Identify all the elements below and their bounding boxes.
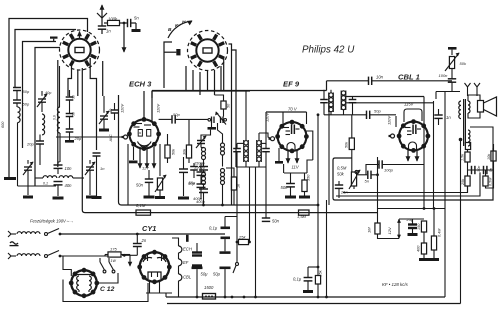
svg-text:K: K [175, 23, 179, 29]
svg-text:150: 150 [417, 223, 421, 230]
trimmer [86, 166, 94, 168]
svg-text:5n: 5n [489, 168, 493, 172]
svg-text:50n: 50n [136, 183, 144, 188]
svg-text:0,5M: 0,5M [337, 166, 347, 171]
svg-text:110V: 110V [156, 104, 161, 113]
anode wire ECH3 [143, 91, 145, 119]
long vertical x460 [460, 140, 462, 304]
volume potentiometer [157, 178, 162, 190]
wire anode line y90 [152, 90, 327, 92]
resistor 0,4M [431, 236, 436, 250]
long vertical x255 [255, 167, 257, 297]
svg-text:110V: 110V [265, 113, 270, 122]
chassis box bottom [119, 95, 319, 205]
long vertical x445 [444, 92, 446, 298]
ground [23, 196, 33, 199]
svg-text:Philips 42 U: Philips 42 U [302, 45, 355, 56]
svg-text:110V: 110V [387, 116, 392, 125]
svg-text:50p: 50p [173, 112, 180, 117]
resistor 0,5M [483, 176, 488, 186]
wire pin V1 [77, 70, 79, 97]
bus bottom a [166, 296, 445, 298]
cathode bar V2 [176, 49, 180, 55]
svg-text:1M: 1M [138, 131, 142, 135]
ground [299, 196, 310, 199]
resistor 1,5k [465, 152, 470, 162]
wire [486, 170, 494, 188]
capacitor 40p [111, 109, 119, 111]
heater pins Y [465, 83, 471, 87]
svg-text:B: B [168, 27, 172, 33]
wire pin V2 [207, 71, 209, 91]
box 115V [404, 109, 422, 121]
resistor 25k [465, 176, 470, 186]
hum coil [468, 130, 470, 146]
wire [436, 91, 460, 93]
vertical from ECH3 pins [135, 168, 137, 206]
grid cap EF9 [271, 137, 275, 141]
svg-text:AVC: AVC [109, 134, 113, 143]
svg-text:ECH 3: ECH 3 [129, 80, 152, 89]
svg-text:30n: 30n [477, 166, 481, 172]
tube CBL1 [399, 122, 428, 151]
svg-text:50k: 50k [337, 172, 345, 177]
wire pin V2 [185, 66, 187, 91]
pins CBL1 [407, 150, 409, 162]
wire [122, 254, 137, 256]
svg-text:0,4M: 0,4M [438, 228, 442, 237]
capacitor 1n CBL [434, 114, 442, 116]
long vertical x434 [433, 101, 435, 209]
tube C12 (ballast) [71, 270, 97, 296]
AVC wire to grid [56, 136, 122, 138]
anode bar [186, 235, 189, 242]
wire pin V2 [229, 44, 232, 205]
svg-text:1W: 1W [111, 259, 117, 263]
wire [249, 167, 251, 242]
svg-text:30: 30 [72, 95, 76, 99]
wire pin V1 [68, 66, 72, 96]
svg-text:50μ: 50μ [201, 272, 209, 277]
wire cathode row [284, 172, 307, 174]
svg-text:40p: 40p [45, 91, 51, 95]
capacitor 50n AVC [262, 217, 270, 219]
tube EF9 [278, 122, 307, 151]
junction dot [459, 138, 463, 142]
svg-text:11V: 11V [292, 165, 300, 170]
cathode ground bar EF9 [275, 161, 283, 164]
trimmer [38, 98, 46, 100]
tube ECH3 [129, 119, 158, 148]
svg-text:5n: 5n [365, 179, 370, 184]
capacitor IFT1 a [233, 148, 241, 150]
ground [303, 290, 313, 293]
wire [102, 22, 108, 24]
wire pin V2 [214, 70, 216, 95]
svg-text:25k: 25k [461, 178, 465, 186]
svg-text:ECH: ECH [183, 247, 193, 252]
wire [17, 123, 19, 186]
resistor 50k [165, 145, 170, 158]
svg-text:0,1M: 0,1M [136, 203, 146, 208]
svg-text:1n: 1n [100, 166, 105, 171]
bus wire y212 [82, 68, 378, 213]
resistor 10k [491, 151, 496, 161]
resistor 1,5M [299, 210, 310, 215]
ground [135, 23, 137, 29]
wire [59, 133, 61, 162]
switch [236, 242, 238, 263]
wire pin V2 [223, 57, 225, 91]
wires speaker [468, 96, 477, 101]
resistor 150 [421, 221, 426, 232]
svg-text:2n: 2n [141, 238, 147, 243]
svg-text:1n: 1n [106, 29, 111, 34]
svg-text:100n: 100n [439, 73, 449, 78]
svg-text:1,5M: 1,5M [297, 214, 307, 219]
svg-text:20p: 20p [26, 142, 34, 147]
svg-text:CBL 1: CBL 1 [398, 73, 420, 82]
resistor 350 [302, 180, 307, 192]
wire IFT1 down [236, 167, 238, 217]
wire mains box 2 [63, 280, 148, 302]
svg-text:0,5M: 0,5M [489, 177, 493, 186]
svg-text:50n: 50n [272, 219, 280, 224]
capacitor 25n [335, 184, 343, 186]
svg-text:1n: 1n [446, 115, 451, 120]
tube V1 (converter, dashed envelope) [60, 30, 100, 70]
wire [35, 48, 60, 187]
oscillator coil 2a [221, 143, 225, 147]
capacitor 10n [368, 77, 370, 85]
tube CY1 [140, 252, 170, 282]
oscillator coil 1b [202, 173, 206, 177]
wire riser 10n [326, 81, 328, 91]
svg-text:0,1μ: 0,1μ [209, 226, 218, 231]
capacitor IFT2 b [349, 99, 357, 101]
antenna [101, 5, 103, 18]
capacitor 50u a [192, 251, 202, 253]
IF transformer 2 primary [328, 93, 330, 113]
ground osc [208, 127, 217, 130]
wire to AVC [123, 22, 126, 25]
ground [419, 258, 429, 261]
wire 110V branch [265, 112, 267, 145]
resistor 100k [108, 20, 120, 25]
ground [92, 196, 102, 199]
resistor 30k [186, 145, 191, 158]
output transformer primary [459, 101, 461, 119]
coil L3 [42, 114, 45, 135]
capacitor 2n [136, 233, 139, 236]
svg-text:50k: 50k [460, 61, 467, 66]
bus bottom b [167, 303, 461, 305]
capacitor 50p det [366, 111, 368, 119]
wire screen right [306, 131, 313, 160]
output transformer secondary [468, 101, 470, 113]
IF transformer 1 secondary [256, 140, 258, 162]
capacitor 20p [36, 140, 44, 142]
feedback loop wire [468, 126, 494, 148]
wire screen line [152, 90, 250, 92]
wire IFT2 secondary right [346, 96, 424, 98]
wire CBL1 top [413, 109, 415, 122]
svg-text:100k: 100k [108, 17, 118, 22]
mains lead 1 [8, 231, 11, 237]
long vertical x318 [317, 115, 319, 276]
svg-text:FeszüItségek 190V∼→: FeszüItségek 190V∼→ [30, 219, 74, 224]
svg-text:40n: 40n [65, 183, 73, 188]
capacitor 30p [66, 96, 74, 98]
wire osc center [218, 123, 223, 143]
wire pin V2 [232, 50, 236, 167]
resistor 50k det [349, 138, 354, 150]
wire [9, 19, 88, 179]
svg-text:EF 9: EF 9 [283, 80, 300, 89]
trimmer padding [100, 115, 108, 117]
ground [53, 197, 64, 200]
wire detector y209 [378, 208, 445, 210]
svg-text:115V: 115V [404, 102, 415, 107]
svg-text:0,1: 0,1 [43, 182, 48, 186]
svg-text:50p: 50p [23, 89, 30, 94]
speaker [478, 101, 484, 113]
wires IFT1 [245, 91, 247, 141]
coil L1 [18, 107, 21, 123]
wire pin V1 [102, 61, 104, 96]
voltage selector contacts [100, 262, 105, 270]
ground [429, 258, 439, 261]
trimmer [24, 166, 32, 168]
wire feedback 1 [343, 186, 468, 193]
svg-text:175: 175 [110, 247, 117, 252]
capacitor 10n [54, 164, 63, 166]
wires IFT2 [330, 90, 332, 93]
wire [353, 186, 355, 189]
coil L4 [57, 107, 60, 133]
wire feedback 2 [336, 172, 480, 196]
grid cap CBL1 [391, 134, 395, 138]
wire [164, 42, 172, 88]
cathode ground bar ECH3 [129, 161, 138, 164]
wire [8, 19, 10, 178]
capacitor 5n [127, 19, 129, 27]
wire top corner [225, 217, 237, 243]
capacitor 20p [66, 128, 74, 130]
wire [58, 161, 60, 163]
capacitor 1n [98, 25, 106, 27]
tone box [333, 148, 493, 200]
capacitor IFT2 a [320, 99, 328, 101]
capacitor 5n tone [358, 174, 367, 176]
svg-text:0,6: 0,6 [53, 115, 57, 120]
capacitor 50p [13, 87, 21, 89]
pin wires EF9 [278, 148, 280, 161]
grid cap ECH3 [124, 135, 128, 139]
C12 filament coils [76, 274, 92, 276]
capacitor [179, 168, 188, 170]
svg-text:H: H [182, 20, 186, 26]
capacitor bypass [50, 37, 58, 39]
pin wires ECH3 [139, 148, 141, 168]
mains lead 2 [8, 253, 11, 259]
wire 50p line to trimmer [175, 118, 208, 120]
wire [222, 155, 224, 167]
oscillator coil 1a [202, 148, 206, 152]
wire pin V2 [220, 66, 222, 91]
svg-text:1500p: 1500p [194, 165, 206, 170]
ground [285, 196, 296, 199]
potentiometer 50k [449, 57, 454, 69]
band switch arc B K H [168, 21, 192, 38]
ground mid [65, 140, 74, 143]
svg-text:70 V: 70 V [288, 107, 298, 112]
wire IFT1 to EF9 grid [259, 133, 271, 138]
svg-text:C 12: C 12 [100, 286, 115, 293]
svg-text:100p: 100p [384, 168, 394, 173]
long vertical x424 [423, 97, 425, 209]
differential trimmer osc [211, 117, 213, 124]
svg-text:350: 350 [307, 174, 311, 181]
svg-text:50n: 50n [281, 185, 289, 190]
output transformer core [463, 99, 465, 146]
svg-text:CBL: CBL [183, 275, 192, 280]
svg-text:0,1μ: 0,1μ [293, 277, 302, 282]
resistor 25k [239, 239, 249, 244]
resistor small [465, 143, 470, 150]
IF transformer 2 secondary [340, 91, 342, 111]
oscillator coil 2b [221, 169, 225, 173]
wire mains box [63, 256, 71, 276]
long vertical x326 [326, 200, 328, 297]
resistor 25k AF [315, 276, 320, 285]
ground [178, 197, 189, 200]
svg-text:50p: 50p [23, 102, 30, 107]
wire pin V1 [90, 58, 96, 150]
resistor 400 [421, 243, 426, 254]
capacitor 50n cathode [286, 183, 295, 185]
wire [460, 118, 463, 120]
capacitor 50p stack [66, 113, 74, 115]
svg-text:CY1: CY1 [142, 224, 156, 233]
wire EF9 top box [266, 111, 307, 113]
wire pin V2 [199, 72, 201, 95]
ground [99, 129, 109, 132]
wire pin V2 [192, 70, 194, 91]
ground [4, 177, 16, 180]
heater chain [178, 243, 180, 246]
ground [144, 196, 155, 199]
svg-text:10n: 10n [376, 75, 384, 80]
svg-text:25k: 25k [238, 235, 246, 240]
wire C12 right [97, 273, 118, 283]
svg-text:1500: 1500 [204, 285, 214, 290]
svg-text:KF • 128 kc/s: KF • 128 kc/s [382, 282, 409, 287]
IF transformer 1 primary [243, 140, 245, 162]
ground [86, 196, 96, 199]
arrow tuning V1 [79, 32, 81, 40]
wire [308, 266, 318, 268]
svg-text:50: 50 [72, 112, 76, 116]
capacitor bar top [448, 47, 457, 50]
wire [15, 30, 76, 88]
ground [408, 233, 418, 236]
coil wave trap [43, 176, 57, 178]
svg-text:50p: 50p [188, 181, 195, 186]
wire pin V1 [57, 60, 59, 167]
wire grid line [395, 116, 397, 127]
wire [23, 42, 57, 149]
svg-text:1,5k: 1,5k [461, 153, 465, 161]
CY1 cathode [148, 272, 161, 279]
chassis box right edge [328, 106, 330, 205]
capacitor 30n [471, 166, 473, 174]
oscillator trimmer [197, 140, 205, 142]
wire y188 [342, 189, 344, 193]
capacitor 50u b [220, 251, 231, 254]
tube V2 (oscillator, dashed envelope) [188, 31, 228, 71]
box chassis line [118, 198, 120, 200]
svg-text:50p: 50p [374, 109, 381, 114]
wire [18, 185, 57, 187]
resistor 50 osc [221, 101, 226, 109]
wire [399, 218, 424, 220]
capacitor 50p [13, 99, 21, 101]
svg-text:10n: 10n [65, 166, 73, 171]
svg-text:1M: 1M [367, 227, 372, 233]
wire det bottom [324, 114, 367, 116]
capacitor 40n [54, 181, 63, 183]
svg-text:600: 600 [1, 121, 5, 128]
mains AC symbol [10, 242, 18, 244]
svg-text:50μ: 50μ [213, 272, 221, 277]
capacitor 100p [381, 164, 398, 166]
capacitor 50p to osc [159, 133, 172, 135]
wire ladder mid [467, 162, 469, 176]
wire box left [118, 94, 120, 96]
svg-text:12V: 12V [387, 227, 392, 234]
tone potentiometer [351, 172, 356, 186]
capacitor IFT1 b [262, 148, 270, 150]
svg-text:25k: 25k [319, 269, 323, 277]
svg-text:110V: 110V [120, 104, 125, 113]
resistor 1M [375, 223, 380, 234]
capacitor 5n [483, 166, 485, 174]
cathode wire ECH3 [133, 147, 135, 160]
svg-text:127: 127 [142, 166, 149, 171]
CY1 pins down [149, 281, 151, 293]
CY1 anodes [143, 258, 152, 262]
ground [155, 196, 165, 199]
svg-text:5n: 5n [134, 16, 139, 21]
capacitor 50n [145, 178, 153, 180]
svg-text:400: 400 [417, 245, 421, 252]
resistor 1k [231, 177, 236, 190]
svg-text:EF: EF [183, 260, 189, 265]
wire [23, 147, 37, 149]
